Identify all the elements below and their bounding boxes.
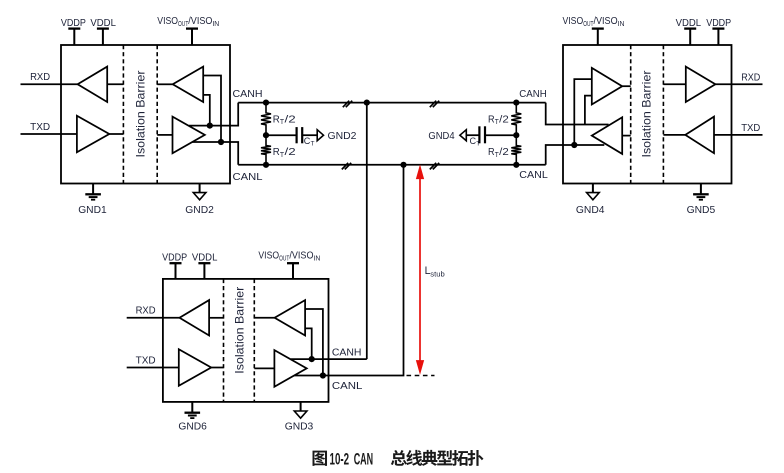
transceiver U1 (top-left isolated CAN transceiver) — [61, 45, 230, 184]
svg-text:VDDP: VDDP — [706, 17, 731, 29]
svg-text:GND5: GND5 — [687, 204, 716, 216]
power pin VDDL (U2) — [689, 29, 691, 45]
wire receiver input B (U1) — [203, 95, 210, 126]
svg-text:GND3: GND3 — [285, 421, 314, 433]
svg-text:T: T — [311, 141, 315, 148]
wire barrier to bus receiver (U3) — [254, 317, 274, 319]
resistor RT/2 lower-left termination — [261, 135, 271, 165]
wire receiver input B (U3) — [305, 328, 312, 359]
wire CT to GND2 arrow left — [302, 134, 317, 136]
wire barrier to bus driver (U1) — [157, 134, 172, 136]
svg-text:/VISO: /VISO — [188, 15, 212, 27]
buffer bus driver (U2) — [592, 117, 622, 154]
ground GND4 (open arrow symbol) — [592, 184, 594, 193]
ground GND6 (earth symbol) — [191, 402, 193, 412]
wire TXD buffer to barrier (U2) — [663, 134, 685, 136]
junction dot CANL stub — [400, 162, 406, 168]
buffer TXD (U1 logic-side driver) — [77, 116, 109, 153]
wire RXD output (U2) — [714, 83, 762, 85]
wire barrier to bus receiver (U1) — [157, 83, 173, 85]
buffer bus driver (U1) — [173, 117, 205, 154]
buffer RXD (U3 logic-side receiver) — [180, 300, 210, 335]
wire bus receiver to barrier (U2) — [622, 85, 631, 87]
wire CANH output (U1) — [189, 103, 238, 126]
capacitor CT right — [484, 126, 486, 143]
svg-text:OUT: OUT — [279, 254, 290, 263]
svg-text:RXD: RXD — [741, 71, 760, 83]
junction dot CANH tap (U1) — [207, 123, 213, 129]
buffer RXD (U2 logic-side driver) — [686, 67, 716, 102]
junction dot CANL tap (U2) — [571, 142, 577, 148]
junction dot CANH / RT right — [513, 100, 519, 106]
wire barrier to RXD buffer (U2) — [663, 83, 685, 85]
wire CANH bus — [238, 102, 546, 104]
svg-text:CANH: CANH — [332, 347, 362, 359]
svg-text:OUT: OUT — [583, 19, 594, 28]
svg-text:stub: stub — [430, 269, 444, 278]
wire RXD input (U3) — [127, 317, 180, 319]
svg-text:Isolation Barrier: Isolation Barrier — [640, 71, 654, 158]
svg-text:/2: /2 — [285, 113, 296, 125]
junction dot RT midpoint right — [513, 132, 519, 138]
wire CANH stub to U3 — [366, 103, 368, 360]
transceiver U2 (top-right isolated CAN transceiver) — [563, 45, 732, 184]
svg-text:TXD: TXD — [136, 354, 156, 366]
svg-text:CANL: CANL — [519, 169, 548, 181]
dimension arrow Lstub (red) — [417, 166, 424, 373]
svg-text:CAN: CAN — [354, 450, 373, 468]
wire CANH input (U2) — [546, 103, 609, 125]
wire RXD buffer to barrier (U1) — [107, 83, 123, 85]
buffer bus receiver (U2) — [592, 68, 622, 105]
buffer bus receiver (U1) — [173, 67, 204, 102]
svg-text:GND2: GND2 — [328, 130, 357, 142]
wire RT midpoint to CT left — [266, 134, 296, 136]
power pin VDDP (U2) — [717, 29, 719, 45]
svg-text:CANH: CANH — [233, 88, 263, 100]
svg-text:/VISO: /VISO — [289, 249, 313, 261]
svg-text:IN: IN — [212, 19, 219, 28]
wire TXD input (U3) — [127, 367, 179, 369]
svg-text:VDDP: VDDP — [61, 17, 86, 29]
resistor RT/2 upper-right termination — [511, 103, 521, 136]
ground GND1 (earth symbol) — [92, 184, 94, 194]
wire CANL stub to U3 — [294, 165, 403, 376]
svg-text:CANH: CANH — [519, 88, 547, 100]
resistor RT/2 lower-right termination — [511, 135, 521, 165]
svg-text:GND2: GND2 — [185, 204, 214, 216]
wire CANL input (U2) — [546, 145, 605, 165]
svg-text:GND6: GND6 — [178, 421, 207, 433]
svg-text:10-2: 10-2 — [330, 450, 350, 468]
svg-text:GND4: GND4 — [428, 130, 454, 142]
wire TXD input (U1) — [21, 133, 77, 135]
svg-text:TXD: TXD — [741, 122, 760, 134]
power pin VDDP (U1) — [73, 29, 75, 45]
svg-text:VDDL: VDDL — [676, 17, 702, 29]
wire receiver input A (U1) — [203, 76, 221, 143]
svg-text:CANL: CANL — [332, 380, 363, 392]
svg-text:/2: /2 — [285, 146, 296, 158]
power pin VISOout/VISOin (U1) — [191, 29, 193, 45]
power pin VISOout/VISOin (U3) — [292, 263, 294, 279]
svg-text:C: C — [304, 136, 311, 147]
isolation barrier U1 (dashed lines + label) — [122, 45, 124, 184]
bus break marks CANH left — [343, 101, 349, 108]
wire CT to GND4 arrow right — [466, 134, 479, 136]
junction dot CANL tap (U3) — [320, 372, 326, 378]
wire TXD buffer to barrier (U1) — [109, 133, 123, 135]
wire receiver input A (U3) — [305, 309, 323, 376]
wire CANL output (U1) — [192, 142, 238, 165]
junction dot CANH / RT left — [263, 100, 269, 106]
svg-text:T: T — [476, 141, 480, 148]
resistor RT/2 upper-left termination — [261, 103, 271, 136]
wire RT midpoint to CT right — [485, 134, 516, 136]
transceiver U3 (bottom isolated CAN transceiver) — [163, 279, 329, 402]
svg-text:C: C — [470, 136, 477, 147]
junction dot CANH stub — [364, 100, 370, 106]
power pin VDDL (U3) — [203, 263, 205, 279]
wire CANL bus — [238, 164, 546, 166]
junction dot CANH tap (U3) — [309, 356, 315, 362]
svg-text:GND4: GND4 — [576, 204, 605, 216]
bus break marks CANH right — [430, 101, 436, 108]
buffer bus receiver (U3) — [275, 300, 306, 335]
wire CANH output (U3) — [291, 358, 367, 360]
svg-text:VDDL: VDDL — [90, 17, 116, 29]
wire RXD input (U1) — [21, 83, 78, 85]
svg-text:IN: IN — [314, 254, 321, 263]
isolation barrier U2 (dashed lines + label) — [630, 45, 632, 184]
svg-text:/VISO: /VISO — [594, 15, 618, 27]
buffer TXD (U2 logic-side receiver) — [685, 117, 714, 154]
power pin VDDL (U1) — [102, 29, 104, 45]
svg-text:Isolation Barrier: Isolation Barrier — [233, 287, 247, 374]
svg-text:CANL: CANL — [233, 171, 263, 183]
ground GND2 arrow (left termination) — [317, 130, 323, 141]
ground GND3 (open arrow symbol) — [300, 402, 302, 411]
svg-text:Isolation Barrier: Isolation Barrier — [133, 71, 147, 158]
wire receiver input B (U2) — [585, 96, 592, 125]
wire TXD buffer to barrier (U3) — [211, 367, 223, 369]
wire receiver input A (U2) — [574, 79, 592, 145]
svg-text:IN: IN — [618, 19, 625, 28]
bus break marks CANL right — [430, 163, 436, 170]
buffer TXD (U3 logic-side driver) — [179, 349, 211, 386]
junction dot CANL / RT left — [263, 162, 269, 168]
svg-text:TXD: TXD — [30, 121, 50, 133]
svg-text:OUT: OUT — [178, 19, 189, 28]
wire RXD buffer to barrier (U3) — [209, 317, 223, 319]
svg-text:/2: /2 — [499, 146, 509, 158]
bus break marks CANL left — [342, 163, 348, 170]
wire barrier to bus driver (U3) — [254, 367, 274, 369]
capacitor CT left — [296, 127, 298, 143]
junction dot RT midpoint left — [263, 132, 269, 138]
isolation barrier U3 (dashed lines + label) — [223, 279, 225, 402]
power pin VDDP (U3) — [175, 263, 177, 279]
junction dot CANL / RT right — [513, 162, 519, 168]
svg-text:VISO: VISO — [258, 249, 279, 261]
svg-text:VDDL: VDDL — [192, 251, 218, 263]
junction dot CANL tap (U1) — [218, 139, 224, 145]
wire TXD input (U2) — [714, 134, 763, 136]
ground GND2 (open arrow symbol) — [199, 184, 201, 193]
buffer RXD (U1 logic-side receiver) — [78, 67, 108, 102]
svg-text:VDDP: VDDP — [162, 251, 187, 263]
svg-text:GND1: GND1 — [78, 204, 107, 216]
wire barrier to bus driver (U2) — [622, 135, 631, 137]
wire dashed stub reference extension — [407, 375, 435, 377]
svg-text:RXD: RXD — [136, 304, 156, 316]
svg-text:/2: /2 — [499, 113, 509, 125]
svg-text:VISO: VISO — [563, 15, 584, 27]
svg-text:RXD: RXD — [30, 71, 50, 83]
power pin VISOout/VISOin (U2) — [597, 29, 599, 45]
caption: 图 10-2 CAN 总线典型拓扑 — [313, 450, 484, 468]
ground GND4 arrow (right termination) — [460, 130, 466, 141]
svg-text:VISO: VISO — [157, 15, 178, 27]
buffer bus driver (U3) — [274, 350, 306, 387]
ground GND5 (earth symbol) — [700, 184, 702, 194]
